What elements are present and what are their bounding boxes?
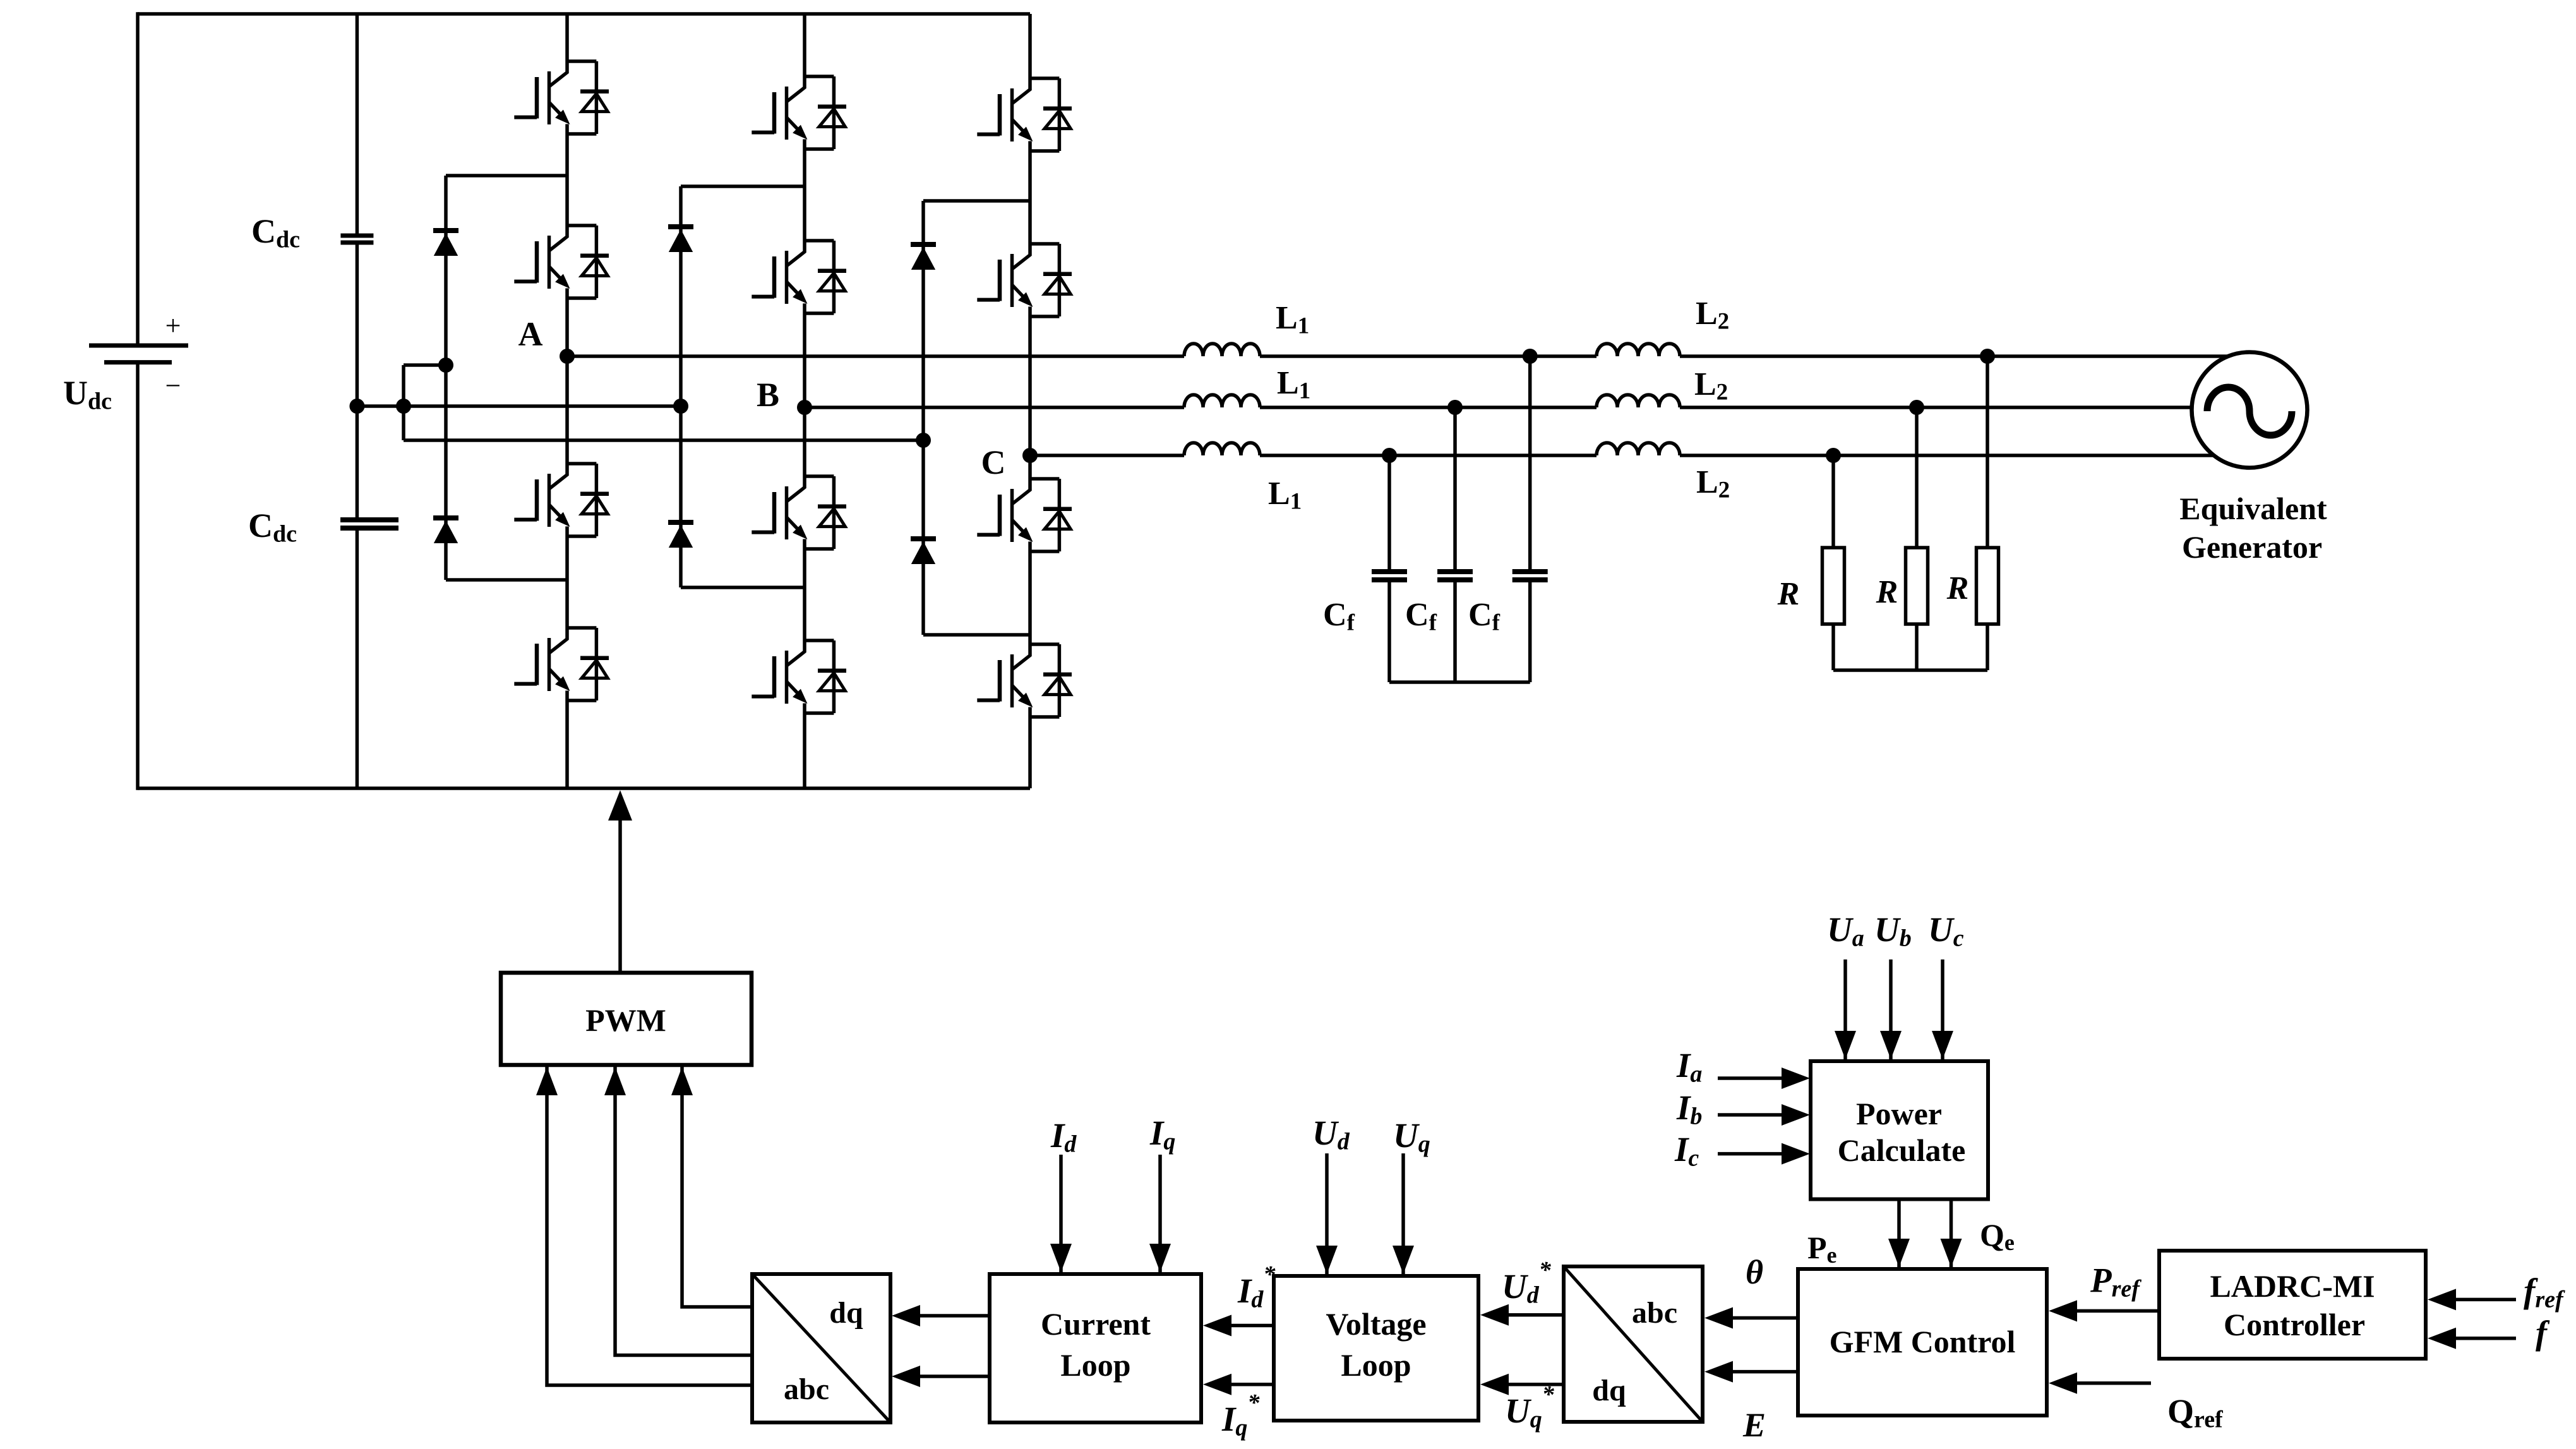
- wire clamp bottom connect phase A: [446, 578, 567, 582]
- node neutral junction: [396, 399, 411, 414]
- wire phase B to L1: [805, 406, 1184, 409]
- block PWM: [501, 973, 752, 1065]
- wire neutral riser: [402, 365, 405, 440]
- wire clamp branch phase B: [679, 186, 683, 587]
- svg-text:E: E: [1742, 1406, 1766, 1444]
- wire R bottom bus: [1833, 668, 1987, 672]
- arrow Pref: [2049, 1300, 2077, 1321]
- svg-text:B: B: [757, 376, 779, 414]
- arrow Pe: [1888, 1239, 1910, 1267]
- arrow modulation c into PWM: [671, 1067, 693, 1095]
- svg-text:Loop: Loop: [1341, 1347, 1411, 1383]
- node phase A output: [560, 349, 575, 364]
- node R tap phase A: [1980, 349, 1995, 364]
- transistor S4 phase A (IGBT+diode): [514, 628, 609, 700]
- wire leg C S1-S2: [1028, 151, 1032, 244]
- capacitor Cf phase B: [1437, 569, 1473, 574]
- wire clamp bottom connect phase C: [923, 633, 1030, 637]
- arrow Ia input: [1782, 1067, 1810, 1089]
- node phase B output: [797, 400, 812, 415]
- wire leg C S3-S4: [1028, 551, 1032, 644]
- transistor S2 phase A (IGBT+diode): [514, 225, 609, 298]
- capacitor Cf phase C: [1372, 569, 1407, 574]
- transistor S3 phase A (IGBT+diode): [514, 464, 609, 536]
- svg-text:−: −: [165, 370, 181, 401]
- wire abc2 to Voltage upper (Ud*): [1509, 1313, 1564, 1317]
- wire leg B S1-S2: [803, 149, 806, 241]
- svg-text:Power: Power: [1856, 1096, 1942, 1131]
- wire R column A lower: [1986, 624, 1989, 670]
- arrow Ib input: [1782, 1104, 1810, 1126]
- svg-text:Voltage: Voltage: [1326, 1306, 1426, 1342]
- arrow abc2 to Voltage upper: [1480, 1304, 1509, 1326]
- wire leg B S3-S4: [803, 549, 806, 640]
- transistor S1 phase A (IGBT+diode): [514, 61, 609, 134]
- wire Current to dq1 lower: [920, 1374, 990, 1378]
- wire Ua input: [1843, 959, 1847, 1059]
- arrow modulation a into PWM: [536, 1067, 558, 1095]
- inductor L2 phase A: [1597, 344, 1680, 356]
- svg-text:R: R: [1946, 570, 1969, 606]
- transistor S1 phase B (IGBT+diode): [752, 76, 846, 149]
- wire clamp branch phase A: [444, 176, 448, 580]
- wire Qe: [1950, 1199, 1953, 1268]
- transistor S2 phase C (IGBT+diode): [977, 244, 1072, 316]
- wire Uc input: [1941, 959, 1944, 1059]
- svg-text:abc: abc: [784, 1373, 829, 1406]
- wire leg C S2-node-S3: [1028, 316, 1032, 479]
- wire PWM to bridge: [618, 817, 622, 973]
- svg-text:+: +: [165, 310, 181, 341]
- node A clamp neutral tap: [438, 358, 453, 373]
- svg-text:Current: Current: [1041, 1306, 1151, 1342]
- node B clamp neutral tap: [673, 399, 688, 414]
- transistor S3 phase B (IGBT+diode): [752, 476, 846, 549]
- wire left border upper: [136, 12, 140, 346]
- wire R column A upper: [1986, 356, 1989, 548]
- wire Ic input: [1718, 1152, 1782, 1156]
- svg-text:GFM Control: GFM Control: [1830, 1324, 2016, 1359]
- wire phase C L2 to generator: [1680, 454, 2250, 457]
- wire leg C bottom: [1028, 717, 1032, 788]
- arrow Voltage to Current upper: [1203, 1315, 1231, 1337]
- node Cf tap phase C: [1382, 448, 1397, 463]
- wire neutral to A clamp: [404, 363, 446, 367]
- wire Cf bottom bus: [1389, 680, 1530, 684]
- arrow PWM to bridge: [608, 790, 632, 821]
- block abc/dq transform 2: [1564, 1266, 1703, 1422]
- arrow fref: [2428, 1289, 2456, 1310]
- wire phase B L1 to L2: [1260, 406, 1597, 409]
- capacitor Cdc lower: [340, 517, 398, 522]
- arrow Qe: [1941, 1239, 1962, 1267]
- AC source equivalent generator: [2192, 352, 2308, 468]
- arrow E: [1704, 1361, 1733, 1383]
- node Cf tap phase B: [1447, 400, 1463, 415]
- capacitor Cdc upper: [340, 234, 373, 238]
- svg-text:dq: dq: [1592, 1374, 1626, 1407]
- wire Current to dq1 upper: [920, 1314, 990, 1318]
- wire leg A top: [565, 14, 569, 61]
- svg-text:dq: dq: [829, 1296, 863, 1330]
- node Cf tap phase A: [1523, 349, 1538, 364]
- arrow modulation b into PWM: [604, 1067, 626, 1095]
- wire phase C L1 to L2: [1260, 454, 1597, 457]
- inductor L1 phase C: [1184, 443, 1260, 455]
- wire clamp top connect phase A: [446, 174, 567, 177]
- arrow f: [2428, 1328, 2456, 1349]
- node R tap phase C: [1826, 448, 1841, 463]
- wire modulation c: [682, 1067, 752, 1307]
- wire Ib input: [1718, 1113, 1782, 1117]
- wire Id input: [1059, 1155, 1063, 1272]
- arrow Current to dq1 upper: [892, 1305, 920, 1326]
- wire modulation b: [615, 1067, 752, 1356]
- arrow Ic input: [1782, 1143, 1810, 1165]
- inductor L2 phase C: [1597, 443, 1680, 455]
- wire Pe: [1897, 1199, 1901, 1268]
- wire DC-link bus lower: [356, 528, 359, 788]
- wire Pref LADRC to GFM: [2077, 1309, 2159, 1313]
- transistor S3 phase C (IGBT+diode): [977, 479, 1072, 551]
- wire phase B L2 to generator: [1680, 406, 2250, 409]
- wire Voltage to Current lower (Iq*): [1231, 1383, 1274, 1386]
- wire leg B S2-node-S3: [803, 313, 806, 476]
- wire leg A S1-S2: [565, 134, 569, 225]
- wire R column B lower: [1915, 624, 1919, 670]
- wire leg A bottom: [565, 700, 569, 788]
- wire leg C top: [1028, 14, 1032, 78]
- inductor L1 phase B: [1184, 395, 1260, 407]
- node C clamp neutral tap: [916, 433, 931, 448]
- battery Udc: [89, 346, 188, 363]
- svg-text:Loop: Loop: [1060, 1347, 1130, 1383]
- resistor R phase B: [1906, 548, 1928, 624]
- arrow Ua input: [1835, 1031, 1856, 1059]
- wire neutral to B clamp: [357, 404, 681, 408]
- wire leg B top: [803, 14, 806, 76]
- wire R column C upper: [1831, 455, 1835, 548]
- wire Uq input: [1401, 1153, 1405, 1274]
- arrow Voltage to Current lower: [1203, 1374, 1231, 1395]
- wire phase A L1 to L2: [1260, 354, 1597, 358]
- inductor L1 phase A: [1184, 344, 1260, 356]
- wire Cf column A upper: [1528, 356, 1532, 570]
- block LADRC-MI Controller: [2159, 1251, 2426, 1359]
- wire DC-link bus upper: [356, 14, 359, 236]
- svg-text:θ: θ: [1746, 1253, 1763, 1291]
- wire modulation a: [547, 1067, 752, 1385]
- wire Ud input: [1325, 1153, 1329, 1274]
- arrow Iq input: [1149, 1244, 1171, 1272]
- resistor R phase A: [1977, 548, 1999, 624]
- diode clamp upper phase C: [911, 244, 936, 270]
- wire bottom DC bus (-): [138, 786, 1030, 790]
- transistor S4 phase B (IGBT+diode): [752, 640, 846, 713]
- node R tap phase B: [1909, 400, 1924, 415]
- wire DC-link bus middle: [356, 243, 359, 520]
- transistor S4 phase C (IGBT+diode): [977, 644, 1072, 717]
- svg-text:Equivalent: Equivalent: [2179, 491, 2327, 526]
- arrow Uq input: [1393, 1246, 1414, 1274]
- arrow abc2 to Voltage lower: [1480, 1374, 1509, 1395]
- capacitor Cf phase A: [1513, 569, 1548, 574]
- wire Cf column A lower: [1528, 582, 1532, 683]
- wire Cf column C lower: [1387, 582, 1391, 683]
- arrow Uc input: [1932, 1031, 1953, 1059]
- wire top DC bus (+): [138, 12, 1030, 16]
- svg-text:R: R: [1876, 574, 1898, 610]
- wire phase C to L1: [1030, 454, 1184, 457]
- wire neutral to C clamp: [404, 438, 923, 442]
- wire Iq input: [1158, 1155, 1162, 1272]
- arrow Current to dq1 lower: [892, 1366, 920, 1387]
- wire fref to LADRC: [2455, 1298, 2516, 1302]
- diode clamp lower phase C: [911, 539, 936, 564]
- wire abc2 to Voltage lower (Uq*): [1509, 1383, 1564, 1386]
- diode clamp upper phase B: [668, 227, 693, 252]
- diode clamp lower phase A: [433, 518, 458, 543]
- block Voltage Loop: [1274, 1276, 1478, 1421]
- wire clamp top connect phase C: [923, 199, 1030, 203]
- node neutral on bus: [349, 399, 364, 414]
- diode clamp upper phase A: [433, 231, 458, 256]
- svg-text:Calculate: Calculate: [1838, 1133, 1966, 1168]
- wire Ub input: [1889, 959, 1893, 1059]
- arrow Ud input: [1316, 1246, 1338, 1274]
- block GFM Control: [1798, 1269, 2047, 1416]
- block Current Loop: [990, 1274, 1201, 1422]
- svg-text:abc: abc: [1632, 1296, 1677, 1330]
- wire clamp bottom connect phase B: [681, 586, 805, 589]
- wire phase A L2 to generator: [1680, 354, 2250, 358]
- transistor S1 phase C (IGBT+diode): [977, 78, 1072, 151]
- wire Qref to GFM: [2077, 1381, 2151, 1385]
- wire phase A to L1: [567, 354, 1184, 358]
- wire f to LADRC: [2455, 1337, 2516, 1340]
- block dq/abc transform 1: [752, 1274, 890, 1422]
- wire Voltage to Current upper (Id*): [1231, 1324, 1274, 1328]
- arrow Ub input: [1880, 1031, 1902, 1059]
- resistor R phase C: [1823, 548, 1845, 624]
- wire Cf column B lower: [1453, 582, 1457, 683]
- diode clamp lower phase B: [668, 522, 693, 548]
- node phase C output: [1022, 448, 1038, 463]
- svg-text:Controller: Controller: [2224, 1307, 2365, 1342]
- svg-text:R: R: [1777, 576, 1800, 612]
- arrow theta: [1704, 1308, 1733, 1329]
- svg-text:C: C: [981, 443, 1006, 481]
- arrow Id input: [1050, 1244, 1072, 1272]
- wire leg A S3-S4: [565, 536, 569, 628]
- wire theta GFM to abc2: [1733, 1316, 1798, 1320]
- svg-text:PWM: PWM: [585, 1002, 666, 1038]
- svg-text:LADRC-MI: LADRC-MI: [2210, 1268, 2375, 1304]
- wire leg B bottom: [803, 713, 806, 788]
- wire clamp branch phase C: [921, 201, 925, 635]
- wire Cf column C upper: [1387, 455, 1391, 570]
- wire R column B upper: [1915, 407, 1919, 548]
- transistor S2 phase B (IGBT+diode): [752, 241, 846, 313]
- wire E GFM to abc2: [1733, 1370, 1798, 1374]
- svg-text:A: A: [518, 315, 543, 353]
- wire R column C lower: [1831, 624, 1835, 670]
- block Power Calculate: [1811, 1061, 1988, 1199]
- wire clamp top connect phase B: [681, 184, 805, 188]
- wire Ia input: [1718, 1076, 1782, 1080]
- wire leg A S2-node-S3: [565, 298, 569, 464]
- inductor L2 phase B: [1597, 395, 1680, 407]
- wire left border lower: [136, 363, 140, 790]
- arrow Qref: [2049, 1373, 2077, 1394]
- svg-text:Generator: Generator: [2182, 529, 2322, 565]
- wire Cf column B upper: [1453, 407, 1457, 570]
